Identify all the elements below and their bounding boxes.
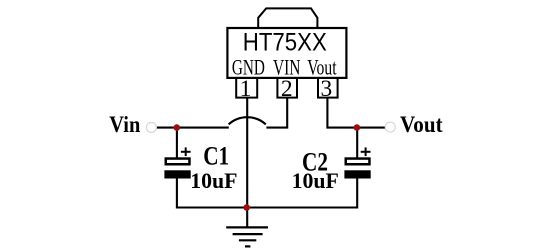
capacitor C2 plus polarity mark <box>361 147 371 156</box>
svg-text:10uF: 10uF <box>292 168 339 193</box>
pin 3 box <box>318 78 338 98</box>
svg-text:Vout: Vout <box>400 112 443 138</box>
svg-text:Vin: Vin <box>109 112 140 138</box>
regulator U1 package tab <box>258 8 317 28</box>
wire pin3 to output terminal <box>327 98 385 128</box>
wire Vin terminal to hop <box>156 127 228 129</box>
wire C1 bottom / ground rail / C2 bottom <box>177 177 357 208</box>
wire pin2 to input net <box>266 98 287 128</box>
junction node output <box>354 124 361 131</box>
junction node ground <box>243 204 250 211</box>
pin 1 box <box>236 78 257 98</box>
junction node input <box>174 124 181 131</box>
terminal circle Vin <box>146 122 156 132</box>
svg-text:HT75XX: HT75XX <box>243 29 327 57</box>
capacitor C1 plus polarity mark <box>181 147 191 156</box>
pin 2 box <box>277 78 297 98</box>
ground symbol bars <box>226 227 268 246</box>
capacitor C1 top plate <box>166 159 190 165</box>
svg-text:C1: C1 <box>203 142 229 171</box>
wire C1 top branch <box>176 128 178 159</box>
capacitor C2 top plate <box>346 159 370 165</box>
svg-text:1: 1 <box>240 76 252 102</box>
capacitor C1 bottom plate <box>164 170 190 178</box>
regulator U1 body <box>227 28 346 78</box>
wire ground stem <box>246 208 248 228</box>
capacitor C2 bottom plate <box>344 170 370 178</box>
wire pin1 GND vertical <box>246 98 248 208</box>
svg-text:10uF: 10uF <box>190 168 237 193</box>
wire hop arc over GND <box>229 117 266 124</box>
terminal circle Vout <box>385 122 395 132</box>
wire C2 top branch <box>356 128 358 159</box>
